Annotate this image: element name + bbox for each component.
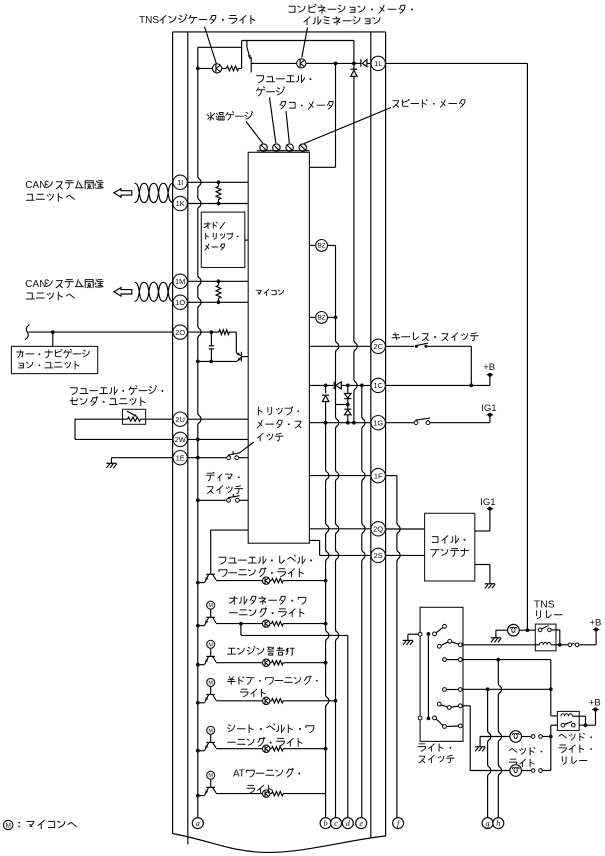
svg-text:e: e [359, 819, 363, 828]
node a internal line [198, 47, 201, 818]
junction emitter seat belt warning light at a-line [196, 749, 200, 753]
TNS relay coil [535, 644, 539, 646]
wire sender loop down [74, 419, 76, 439]
label trip meter switch [258, 407, 291, 415]
resistor engine warning light [270, 662, 271, 664]
svg-text:h: h [496, 819, 500, 828]
resistor 2O filter [211, 331, 219, 333]
connector pin h bottom [493, 818, 504, 829]
svg-text:2O: 2O [175, 328, 185, 337]
resistor AT warning light [270, 793, 271, 795]
variable resistor fuel sender [75, 418, 128, 420]
headlight bulb low [510, 765, 522, 777]
wire headlight low row [470, 770, 510, 772]
svg-text:1K: 1K [176, 199, 185, 208]
odo/trip meter box [201, 212, 245, 267]
connector pin 1M [173, 274, 187, 288]
combination meter left border outer line [172, 32, 174, 834]
lamp seat belt warning light [216, 748, 262, 750]
svg-text:AT: AT [233, 769, 245, 780]
combination meter outline top edge [173, 31, 386, 33]
keyless switch contacts [415, 345, 418, 348]
label headlight relay [559, 733, 585, 741]
junction 1C at e [360, 384, 364, 388]
node c vertical line [336, 245, 339, 817]
wire light switch row2 to headlight relay [462, 659, 551, 661]
wire 2Q row [309, 528, 370, 530]
wire seat belt warning light to bus [283, 748, 325, 750]
svg-text:1G: 1G [373, 418, 383, 427]
gauge mounting rail [257, 150, 310, 152]
connector pin 1K [173, 196, 187, 210]
car navigation unit box [11, 346, 97, 373]
connector pin 2O [173, 325, 187, 339]
combination meter left border inner line [187, 32, 189, 845]
wire CAN high 2 to microcomputer [187, 280, 248, 282]
light switch TNS contact row [437, 644, 441, 648]
svg-text:TNS: TNS [139, 15, 159, 26]
label car navigation line2 [19, 361, 79, 369]
wire 2O filter emitter to a-line [196, 360, 200, 364]
resistor CAN termination 2 [217, 279, 221, 283]
transistor driver AT warning light [207, 771, 215, 779]
leader water temp gauge [246, 122, 263, 144]
label fuel gauge sender line1 [70, 386, 156, 395]
IG1 supply 1G row [489, 415, 491, 423]
twisted pair 2 [135, 282, 173, 301]
label light switch [418, 744, 443, 752]
ground 1E [106, 462, 116, 464]
connector pin 1G [371, 416, 385, 430]
label keyless switch [392, 333, 478, 341]
diode D2 vertical on supply branch [353, 41, 355, 70]
combination meter right border outer line [385, 32, 387, 836]
headlight relay coil [561, 714, 572, 716]
svg-text:CAN: CAN [25, 180, 46, 191]
TNS relay switch contacts [538, 628, 542, 632]
twisted pair 1 [135, 183, 173, 202]
lamp alternator warning light [216, 623, 262, 625]
connector pin 2Q [371, 522, 385, 536]
tachometer gauge symbol [286, 144, 293, 151]
svg-text:+B: +B [590, 617, 602, 628]
label fuel gauge sender line2 [70, 397, 145, 406]
junction emitter alternator warning light at a-line [196, 624, 200, 628]
leader illumination lamp [302, 28, 308, 58]
labels warning lights [219, 555, 305, 564]
leader speedometer [304, 108, 391, 144]
node c top segment from illumination [335, 63, 337, 167]
svg-text:+B: +B [483, 362, 495, 373]
wire alternator warning light to bus [283, 623, 325, 625]
node g vertical line [488, 689, 491, 818]
+B supply TNS relay [595, 630, 597, 645]
connector pin g bottom [482, 818, 493, 829]
node d diode chain [347, 385, 349, 393]
wire engine warning light to bus [283, 662, 325, 664]
svg-text:BZ: BZ [318, 315, 326, 322]
wire 1G row [309, 422, 370, 424]
resistor half door warning light [270, 700, 271, 702]
label speedometer [393, 100, 465, 108]
junction 1G at diode line [352, 421, 356, 425]
headlight low connector contacts [522, 770, 532, 772]
transistor Q-2O [235, 332, 237, 353]
leader fuel gauge [270, 98, 276, 144]
junction emitter engine warning light at a-line [196, 663, 200, 667]
light switch pole top [418, 632, 422, 636]
wire TNS bulb to ground [496, 629, 508, 631]
wire 2O to car-navigation [29, 331, 173, 333]
headlight bulb high [510, 731, 522, 743]
resistor CAN termination 1 [217, 180, 221, 184]
junction 1G at b [324, 421, 328, 425]
+B supply keyless [489, 375, 491, 386]
light switch contact row 3 [443, 688, 447, 692]
coil antenna box [425, 513, 475, 581]
junction emitter half door warning light at a-line [196, 701, 200, 705]
junction relay output at high beam row [549, 735, 553, 739]
light switch box [420, 607, 463, 741]
transistor driver fuel level warning light [206, 573, 215, 575]
connector pin 1L [371, 56, 385, 70]
connector pin 1E [173, 451, 187, 465]
node h vertical line [498, 660, 501, 818]
wire sender return to 2W [75, 438, 173, 440]
svg-text:M: M [208, 603, 213, 609]
wire 2U to microcomputer [187, 418, 248, 420]
speedometer gauge symbol [299, 144, 306, 151]
wire CAN low 1 to microcomputer [187, 203, 248, 205]
leader tachometer [286, 111, 289, 143]
relay feed vertical [550, 660, 552, 716]
connector pin f bottom [393, 818, 404, 829]
resistor TNS indicator series [227, 66, 239, 71]
label headlight [509, 748, 535, 756]
junction illumination at node c [334, 62, 338, 66]
fuel sender unit box [123, 409, 146, 424]
transistor driver engine warning light [207, 640, 215, 648]
svg-text:1F: 1F [374, 471, 383, 480]
microcomputer label [256, 290, 283, 296]
label car navigation line1 [17, 349, 89, 358]
connector pin 2U [173, 412, 187, 426]
wire 1F row [309, 475, 370, 477]
wire 1G to IG1 with switch [386, 422, 415, 424]
transistor driver alternator warning light [207, 601, 215, 609]
leader TNS lamp [205, 27, 217, 64]
capacitor 2O filter [210, 332, 212, 346]
label combination meter illumination line1 [289, 4, 405, 13]
junction emitter AT warning light at a-line [196, 794, 200, 798]
ground coil antenna [485, 583, 495, 585]
wire 1F to node f [386, 475, 397, 477]
connector pin b bottom [320, 818, 331, 829]
label fuel gauge line2 [257, 87, 285, 96]
headlight relay box [557, 711, 579, 730]
svg-text:1I: 1I [177, 178, 183, 187]
junction 1E at a-line [196, 456, 200, 460]
resistor seat belt warning light [270, 748, 271, 750]
trip meter switch [227, 456, 231, 460]
wire relay coil to +B branch [579, 715, 585, 717]
wire 1E to ground [112, 457, 173, 459]
TNS indicator lamp [198, 67, 227, 69]
svg-text:TNS: TNS [534, 599, 555, 611]
svg-text:b: b [324, 819, 328, 828]
junction keyless and 1C [469, 384, 473, 388]
wire illumination lamp row [255, 62, 297, 64]
connector pin 1F [371, 468, 385, 482]
connector in TNS +B wire [560, 644, 569, 646]
torn bottom edge wave [173, 834, 386, 853]
junction TNS lamp feed [196, 67, 200, 71]
svg-text:1L: 1L [374, 59, 382, 68]
wire diode line down to 1G [354, 76, 357, 422]
label fuel gauge line1 [257, 75, 305, 83]
break squiggle nav wire [25, 325, 30, 340]
wire light switch row3 [462, 688, 551, 690]
node b vertical line [325, 385, 327, 393]
junction 1C at d [346, 384, 350, 388]
junction relay +B branch [584, 723, 588, 727]
wire 1E to trip meter switch [187, 457, 227, 459]
wire 2W to microcomputer [187, 438, 248, 440]
resistor alternator warning light [270, 623, 271, 625]
diode D4 on 1C row [333, 382, 335, 390]
junction 1G at d [346, 421, 350, 425]
lamp AT warning light [216, 793, 262, 795]
+B supply headlight relay [595, 710, 597, 726]
wire fuel level warning light to bus [283, 580, 325, 582]
svg-text:M: M [208, 680, 213, 686]
wire coil antenna to ground [475, 564, 490, 566]
wire 2S to coil antenna [386, 554, 425, 556]
light switch contact row 4 [437, 702, 441, 706]
junction emitter fuel level warning light at a-line [196, 581, 200, 585]
microcomputer box [248, 152, 309, 543]
wire node c to node d link [336, 404, 348, 406]
arrow to CAN units 2 [114, 288, 132, 297]
label tachometer [280, 102, 333, 110]
wire relay switch to +B [579, 724, 595, 726]
connector pin c bottom [331, 818, 342, 829]
light switch contact row 2 [443, 658, 447, 662]
wire 1C to +B [386, 384, 490, 386]
ground light switch [403, 639, 413, 641]
water temp gauge symbol [260, 144, 267, 151]
svg-text:M: M [5, 822, 11, 829]
transistor Q-TNS [246, 41, 248, 48]
lamp engine warning light [216, 662, 262, 664]
junction 1L line at TNS relay [526, 628, 530, 632]
diode D1 to 1L [354, 62, 361, 64]
label water temp gauge [207, 112, 253, 121]
junction BZ2 at node c [334, 316, 338, 320]
svg-text:2Q: 2Q [373, 524, 383, 533]
wire 2C to keyless switch [386, 345, 414, 347]
headlight relay switch [561, 723, 565, 727]
connector pin d bottom [342, 818, 353, 829]
light switch pole bottom [418, 716, 422, 720]
svg-text:CAN: CAN [25, 279, 46, 290]
wire 2C row [309, 345, 370, 347]
diode D3 on node b [322, 396, 329, 402]
leader trip meter switch [239, 442, 254, 453]
svg-text:1C: 1C [373, 381, 383, 390]
svg-text:M: M [208, 728, 213, 734]
svg-text:IG1: IG1 [481, 403, 496, 414]
wire CAN high 1 to microcomputer [187, 181, 248, 183]
headlight high connector contacts [522, 736, 532, 738]
TNS indicator bulb [508, 624, 520, 636]
wire keyless down to +B feed [470, 346, 472, 385]
wire microcomputer to fuel level transistor [211, 530, 249, 574]
svg-text:2S: 2S [374, 551, 383, 560]
label coil antenna [432, 536, 458, 544]
connector pin 2S [371, 548, 385, 562]
wire 1C row [309, 384, 333, 386]
transistor driver half door warning light [207, 678, 215, 686]
svg-text:c: c [334, 819, 338, 828]
svg-text:2W: 2W [175, 435, 186, 444]
dimmer switch [227, 498, 231, 502]
wire 2Q to coil antenna [386, 528, 425, 530]
svg-text:g: g [486, 819, 490, 828]
junction diode branch [352, 62, 356, 66]
svg-text:+B: +B [589, 698, 601, 709]
transistor driver seat belt warning light [207, 726, 215, 734]
wire 2O to filter circuit [187, 331, 211, 333]
connector pin e bottom [356, 818, 367, 829]
junction relay feed at row3 [549, 687, 553, 691]
junction 1C at b [324, 384, 328, 388]
fuel gauge symbol [273, 144, 280, 151]
TNS relay box [535, 624, 556, 651]
wire light switch to ground [408, 633, 419, 635]
odo/trip meter label [204, 222, 225, 228]
wire headlight high row [480, 736, 510, 738]
label dimmer switch [206, 472, 232, 481]
junction node h start [496, 658, 500, 662]
wire odo box to microcomputer [245, 239, 248, 241]
wire relay output down [551, 724, 558, 726]
connector pin 1I [173, 175, 187, 189]
wire 2S row [309, 540, 319, 555]
combination meter right border inner line [370, 32, 372, 838]
buzzer BZ2 [309, 316, 315, 318]
connector pin 2C [371, 339, 385, 353]
wire coil antenna to IG1 [475, 530, 490, 532]
label combination meter illumination line2 [304, 17, 380, 25]
ground headlight [479, 737, 481, 747]
arrow to CAN units 1 [114, 189, 132, 198]
illumination lamp [297, 59, 306, 68]
wire 1L to headlight relay feed [386, 62, 528, 64]
svg-text:IG1: IG1 [480, 497, 495, 508]
connector pin 1O [173, 295, 187, 309]
connector pin a bottom [192, 818, 203, 829]
wire a-line top horizontal [198, 46, 242, 48]
svg-text:2C: 2C [373, 342, 383, 351]
wire half door warning light to bus [283, 700, 335, 702]
wire CAN low 2 to microcomputer [187, 301, 248, 303]
lamp fuel level warning light [216, 580, 262, 582]
wire supply rail top [242, 41, 354, 69]
connector pin 2W [173, 432, 187, 446]
junction TNS relay output [558, 643, 562, 647]
note M means to microcomputer [4, 820, 13, 829]
junction 2W at a-line [196, 438, 200, 442]
wire TNS bulb to relay [519, 629, 535, 631]
ground TNS bulb [491, 637, 501, 639]
svg-text:M: M [208, 773, 213, 779]
svg-text:M: M [208, 642, 213, 648]
lamp half door warning light [216, 700, 262, 702]
wire TNS relay switch to +B [551, 629, 560, 631]
resistor fuel level warning light [270, 580, 271, 582]
svg-text:1E: 1E [176, 453, 185, 462]
wire AT warning light to bus [283, 793, 325, 795]
junction node d mid [346, 403, 350, 407]
svg-text:1M: 1M [175, 277, 185, 286]
svg-text:BZ: BZ [318, 243, 326, 250]
svg-text:1O: 1O [175, 298, 185, 307]
wire light switch to TNS relay coil [462, 644, 536, 646]
svg-text:2U: 2U [175, 415, 184, 424]
light switch common vertical [427, 634, 429, 719]
svg-text:a: a [196, 819, 200, 828]
wire light switch row4 to low beam [462, 705, 470, 707]
wire alternator branch to node d [239, 622, 243, 626]
buzzer BZ1 [309, 244, 315, 246]
junction nav branch [51, 330, 55, 334]
node f vertical line [397, 476, 400, 818]
dimmer switch wire [196, 498, 200, 502]
node e vertical line [362, 385, 365, 817]
junction node g start [486, 687, 490, 691]
node d lower vertical line [347, 635, 349, 817]
connector pin 1C [371, 378, 385, 392]
